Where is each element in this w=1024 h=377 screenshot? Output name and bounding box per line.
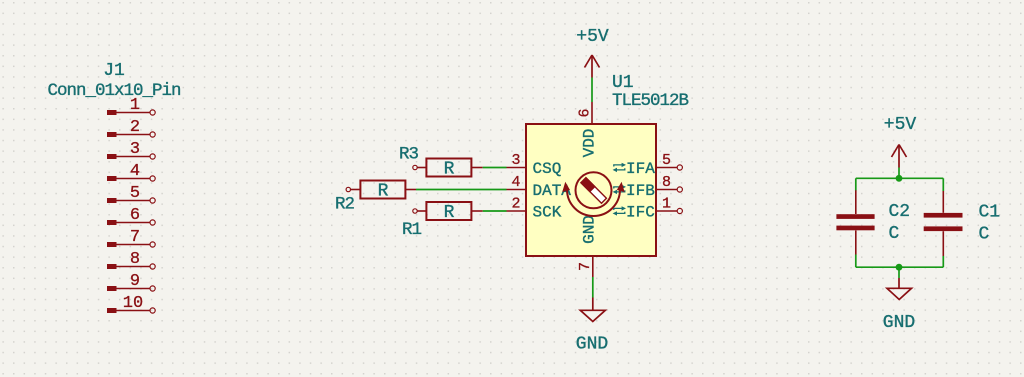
U1 pin 2 (SCK) stub [507,210,527,212]
svg-text:IFB: IFB [626,182,655,200]
svg-text:TLE5012B: TLE5012B [612,91,689,111]
svg-text:5: 5 [130,184,140,203]
svg-text:7: 7 [577,262,594,271]
svg-text:R: R [378,182,389,202]
svg-text:8: 8 [662,174,671,191]
svg-text:6: 6 [577,108,594,117]
resistor R3 [413,159,483,177]
U1 pin 6 (VDD, top) [591,102,593,124]
svg-text:IFA: IFA [626,160,655,178]
svg-text:GND: GND [581,215,599,244]
junction top rail [896,175,903,182]
svg-text:6: 6 [130,206,140,225]
svg-text:R: R [444,160,455,180]
svg-text:CSQ: CSQ [533,160,562,178]
svg-text:3: 3 [130,140,140,159]
svg-text:J1: J1 [103,61,125,81]
wire top rail [856,177,944,179]
svg-text:GND: GND [576,335,608,355]
wire U1 pin 6 to +5V [591,78,593,103]
svg-text:9: 9 [130,272,140,291]
wire capacitor rail to +5V [898,168,900,179]
wire top rail to C1 [942,178,944,191]
svg-text:C: C [889,224,900,244]
U1 pin name IFA with bidirectional arrows [613,160,656,178]
capacitor C1 [924,191,963,256]
U1 pin 7 (GND, bottom) [592,256,594,277]
resistor R2 [346,181,416,199]
U1 pin 1 (IFC) stub [656,208,682,213]
connector J1 pin 8 [107,264,155,269]
svg-text:4: 4 [130,162,140,181]
svg-text:C: C [979,225,990,245]
power symbol +5V (U1) [585,55,600,78]
ground symbol GND (capacitors) [887,278,912,300]
svg-text:GND: GND [883,313,915,333]
wire R1 to pin 2 [483,210,507,212]
svg-text:1: 1 [130,96,140,115]
svg-text:+5V: +5V [884,115,917,135]
U1 pin 5 (IFA) stub [656,165,682,170]
wire U1 pin 7 to GND [592,277,594,298]
svg-text:Conn_01x10_Pin: Conn_01x10_Pin [47,81,180,101]
U1 pin name IFC with bidirectional arrows [613,203,655,221]
svg-text:R2: R2 [335,195,355,215]
svg-text:+5V: +5V [576,27,609,47]
connector J1 pin 2 [107,132,155,137]
ground symbol GND (U1) [580,298,605,322]
wire R2 to pin 4 [416,189,507,191]
wire bottom rail to GND [898,267,900,278]
svg-text:7: 7 [130,228,140,247]
U1 rotation arc with arrows [562,182,624,216]
wire C2 to bottom rail [855,255,857,268]
wire top rail to C2 [855,178,857,190]
wire C1 to bottom rail [942,256,944,267]
connector J1 pin 9 [107,286,155,291]
svg-text:R: R [444,203,455,223]
svg-text:C1: C1 [979,203,1001,223]
op-amp U1 body [526,124,656,256]
U1 magnet icon circle [576,172,612,208]
wire R3 to pin 3 [483,167,507,169]
connector J1 pin 1 [107,110,155,115]
svg-text:10: 10 [123,294,143,313]
power symbol +5V (capacitors) [892,145,907,168]
svg-text:VDD: VDD [581,129,599,158]
connector J1 pin 7 [107,242,155,247]
svg-text:IFC: IFC [626,203,655,221]
connector J1 pin 5 [107,198,155,203]
svg-text:5: 5 [662,152,671,169]
connector J1 pin 4 [107,176,155,181]
svg-text:C2: C2 [889,202,911,222]
U1 pin 4 (DATA) stub [507,189,527,191]
connector J1 pin 6 [107,220,155,225]
svg-text:2: 2 [130,118,140,137]
connector J1 pin 3 [107,154,155,159]
svg-text:1: 1 [662,196,671,213]
svg-text:SCK: SCK [533,204,562,222]
U1 pin name IFB with bidirectional arrows [613,182,655,200]
connector J1 pin 10 [107,308,155,313]
capacitor C2 [836,190,874,254]
wire bottom rail [856,266,944,268]
svg-text:2: 2 [511,196,520,213]
svg-text:R3: R3 [399,145,419,165]
svg-text:3: 3 [511,152,520,169]
U1 pin 8 (IFB) stub [656,187,682,192]
resistor R1 [413,202,483,220]
U1 magnet bar [581,178,606,203]
U1 pin 3 (CSQ) stub [507,167,527,169]
junction bottom rail [896,264,903,271]
svg-text:4: 4 [511,174,520,191]
svg-text:R1: R1 [402,220,422,240]
svg-text:U1: U1 [612,73,634,93]
svg-text:8: 8 [130,250,140,269]
